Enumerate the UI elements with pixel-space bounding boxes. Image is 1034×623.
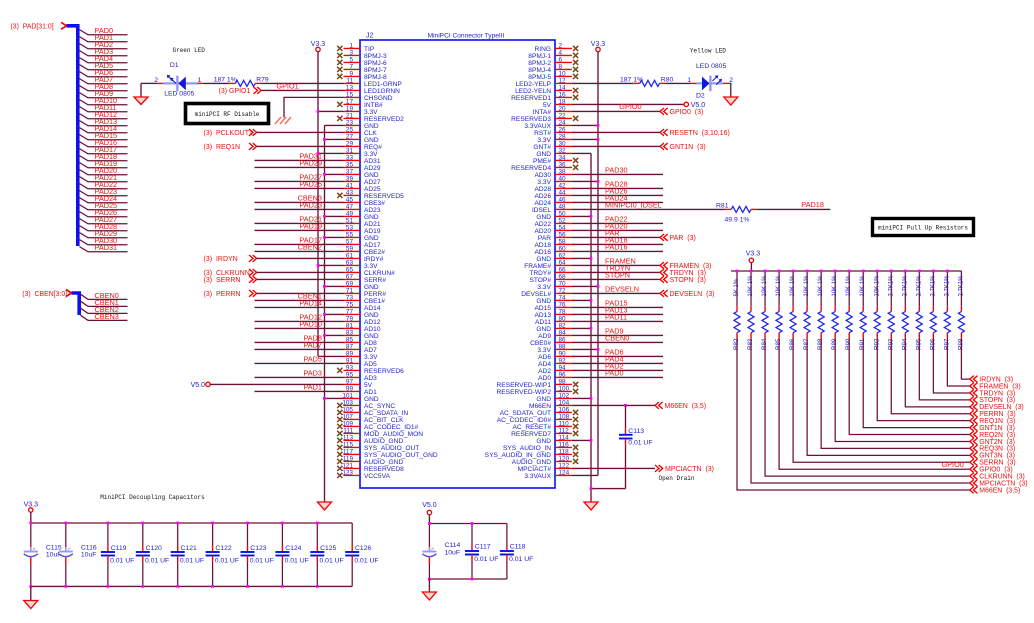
wire C113 bottom to GND [625,445,627,489]
svg-text:123: 123 [342,470,353,477]
svg-text:13: 13 [346,85,354,92]
svg-text:V5.0: V5.0 [691,102,706,109]
connector J2 pin 39 (AD27) [344,176,381,186]
svg-text:3.3V: 3.3V [537,284,551,291]
svg-text:60: 60 [559,246,567,253]
connector J2 pin 32 (GND) [536,148,572,158]
wire R82 to port M66EN [737,338,970,490]
wire net PAD8 [255,341,344,343]
connector J2 pin 24 (3.3VAUX) [524,120,572,130]
connector J2 pin 6 (8PMJ-2) [528,57,578,67]
wire net PAD6 [572,355,663,357]
wire net CBEN1 [255,299,344,301]
wire V3.3 to bus [750,263,752,271]
connector J2 pin 38 (AD30) [535,169,572,179]
resistor R84 (10K 1%) [761,271,768,350]
svg-text:61: 61 [346,253,354,260]
junction pull-up bus / R86 [792,270,795,273]
wire R86 to port SERRN [793,338,970,462]
connector J2 pin 73 (CBE1#) [344,295,386,305]
connector J2 pin 88 (3.3V) [537,344,571,354]
connector J2 pin 110 (AC_RESET#) [513,421,579,431]
svg-text:75: 75 [346,302,354,309]
connector J2 pin 68 (STOP#) [529,274,571,284]
svg-text:GND: GND [364,235,379,242]
svg-text:29: 29 [346,141,354,148]
wire R83 to port MPCIACTN [751,338,970,483]
capacitor C126 [345,523,378,586]
resistor R83 (10K 1%) [747,271,754,350]
svg-text:71: 71 [346,288,354,295]
svg-text:AD15: AD15 [535,305,552,312]
port REQ2N (pull-up) [970,431,978,438]
connector J2 pin 3 (8PMJ-3) [337,50,387,60]
svg-text:C126: C126 [355,545,371,552]
svg-text:8PMJ-1: 8PMJ-1 [528,53,551,60]
svg-text:AUDIO_GND: AUDIO_GND [364,438,403,445]
connector J2 pin 30 (GNT#) [533,141,571,151]
port MPCIACTN (pull-up) [970,480,978,487]
capacitor C118 [500,524,533,580]
ground (right rail) [584,502,598,510]
svg-text:65: 65 [346,267,354,274]
capacitor C123 [241,523,274,586]
port TRDYN (pull-up) [970,390,978,397]
svg-text:109: 109 [342,421,353,428]
capacitor C117 [465,524,498,580]
svg-text:87: 87 [346,344,354,351]
connector J2 MiniPCI Connector TypeIII body [360,40,555,488]
svg-text:2.7K1%: 2.7K1% [958,275,964,297]
connector J2 pin 5 (8PMJ-6) [337,57,387,67]
wire net PAD21 [255,222,344,224]
svg-text:112: 112 [559,428,570,435]
connector J2 pin 35 (AD29) [344,162,381,172]
wire pin 20 GPIO0 [572,110,660,112]
wire net PAD18 stub [80,156,128,161]
svg-text:R79: R79 [256,76,269,83]
svg-text:PAD19: PAD19 [299,222,322,231]
wire R97 to port FRAMEN [947,338,969,386]
svg-text:0.01 UF: 0.01 UF [145,557,169,564]
svg-text:90: 90 [559,351,567,358]
connector J2 pin 120 (AUDIO_GND) [512,456,578,466]
connector J2 pin 77 (GND) [344,309,379,319]
wire net PAD28 stub [80,226,128,231]
svg-text:CHSGND: CHSGND [364,95,393,102]
resistor R80 [640,80,660,86]
junction decoupling bus / C125 [316,522,319,525]
wire net PAD17 stub [80,149,128,154]
wire net PAD30 [572,173,663,175]
svg-text:AD21: AD21 [364,221,381,228]
connector J2 pin 102 (GND) [536,393,572,403]
svg-text:1: 1 [198,77,202,84]
junction decoupling bus / C122 [211,522,214,525]
svg-text:RST#: RST# [534,130,551,137]
wire net PAD2 [572,369,663,371]
svg-text:5V: 5V [364,382,373,389]
wire R91 to port GNT1N [863,338,970,428]
wire decoupling bus to ground [30,586,32,600]
svg-text:45: 45 [346,197,354,204]
svg-text:GPIO1: GPIO1 [276,81,298,90]
junction decoupling bus / C115 [29,522,32,525]
junction GND rail / pin 83 [323,334,326,337]
connector J2 pin 103 (AC_SYNC) [337,400,395,410]
svg-text:10: 10 [559,71,567,78]
capacitor C124 [275,523,308,586]
svg-text:GPIO0 (3): GPIO0 (3) [670,109,704,116]
connector J2 pin 65 (CLKRUN#) [344,267,396,277]
wire net PAD22 stub [80,184,128,189]
connector J2 pin 79 (AD12) [344,316,381,326]
svg-text:AD10: AD10 [364,326,381,333]
svg-text:C113: C113 [628,428,644,435]
svg-text:111: 111 [343,428,353,435]
svg-text:STOPN: STOPN [605,271,630,280]
svg-text:63: 63 [346,260,354,267]
wire 3.3V rail to pin 124 [572,474,598,476]
power V3.3 (decoupling) [29,508,33,512]
svg-text:8: 8 [559,64,563,71]
svg-text:LED2-YELN: LED2-YELN [515,88,551,95]
svg-text:91: 91 [346,358,354,365]
svg-text:RESERVED1: RESERVED1 [511,95,551,102]
svg-text:D1: D1 [170,62,179,69]
svg-text:AD8: AD8 [364,340,377,347]
connector J2 pin 78 (AD13) [535,309,572,319]
wire GND to pin 49 [325,215,344,217]
port M66EN (3,5) [655,402,663,409]
port GNT3N (pull-up) [970,452,978,459]
svg-text:AD13: AD13 [535,312,552,319]
svg-text:DEVSEL#: DEVSEL# [521,291,551,298]
connector J2 pin 27 (GND) [344,134,379,144]
svg-text:10K 1%: 10K 1% [762,275,768,297]
svg-text:LED 0805: LED 0805 [164,90,194,97]
ground (left rail) [318,502,332,510]
connector J2 pin 94 (AD2) [538,365,572,375]
connector J2 pin 17 (INTB#) [337,99,383,109]
svg-text:AD16: AD16 [535,249,552,256]
svg-text:CBEN3: CBEN3 [95,312,119,321]
svg-text:3.3V: 3.3V [364,263,378,270]
connector J2 pin 117 (SYS_AUDIO_OUT_GND) [337,449,438,459]
svg-text:PAD10: PAD10 [299,320,322,329]
svg-text:187 1%: 187 1% [620,76,643,83]
connector J2 pin 116 (SYS_AUDIO_IN) [503,442,578,452]
svg-text:C120: C120 [146,545,162,552]
svg-text:68: 68 [559,274,567,281]
svg-text:AD5: AD5 [364,361,377,368]
svg-text:CBEN2: CBEN2 [298,243,322,252]
wire net PAD4 [572,362,663,364]
svg-text:104: 104 [559,400,570,407]
connector J2 pin 61 (IRDY#) [344,253,384,263]
svg-text:88: 88 [559,344,567,351]
svg-text:120: 120 [559,456,570,463]
connector J2 pin 40 (3.3V) [537,176,571,186]
connector J2 pin 83 (GND) [344,330,379,340]
connector J2 pin 72 (DEVSEL#) [521,288,572,298]
connector J2 pin 28 (3.3V) [537,134,571,144]
wire 3.3V to pin 63 [318,264,344,266]
svg-text:GND: GND [536,438,551,445]
svg-text:AD1: AD1 [364,389,377,396]
svg-text:12: 12 [559,78,567,85]
connector J2 pin 50 (GND) [536,211,572,221]
connector J2 pin 25 (CLK) [344,127,378,137]
connector J2 pin 55 (GND) [344,232,379,242]
svg-text:LED 0805: LED 0805 [696,63,726,70]
wire net PAD25 [255,187,344,189]
junction M66EN / C113 [624,404,627,407]
wire net PAD12 [255,320,344,322]
connector J2 pin 101 (GND) [342,393,379,403]
junction pull-up bus / R93 [890,270,893,273]
junction pull-up bus / R87 [806,270,809,273]
connector J2 pin 26 (RST#) [534,127,572,137]
svg-text:59: 59 [346,246,354,253]
wire net PAD10 stub [80,100,128,105]
junction V3.3 rail / pin 70 [597,285,600,288]
wire net CBEN2 [255,250,344,252]
connector J2 pin 90 (AD6) [538,351,572,361]
connector J2 pin 51 (AD21) [344,218,381,228]
svg-text:MiniPCI Decoupling Capacitors: MiniPCI Decoupling Capacitors [100,494,205,501]
junction pull-up bus / R83 [750,270,753,273]
svg-text:RESERVED3: RESERVED3 [511,116,551,123]
connector J2 pin 20 (INTA#) [533,106,572,116]
svg-text:10K 1%: 10K 1% [860,275,866,297]
svg-text:121: 121 [342,463,353,470]
svg-text:10K 1%: 10K 1% [818,275,824,297]
LED D2 [691,75,730,91]
wire net PAD29 stub [80,233,128,238]
svg-text:PME#: PME# [533,158,551,165]
svg-text:Yellow LED: Yellow LED [690,47,726,54]
svg-text:2: 2 [154,77,158,84]
wire net PAD14 stub [80,128,128,133]
svg-text:10K 1%: 10K 1% [846,275,852,297]
svg-text:AC_BIT_CLK: AC_BIT_CLK [364,417,404,424]
port TRDYN [660,269,668,276]
junction V5.0 bus / C117 [471,522,474,525]
svg-text:2.7K1%: 2.7K1% [888,275,894,297]
svg-text:R80: R80 [661,76,674,83]
svg-text:RESERVED-WIP1: RESERVED-WIP1 [497,382,552,389]
connector J2 pin 57 (AD17) [344,239,381,249]
wire CLKRUNN to pin [257,271,344,273]
wire R94 to port DEVSELN [905,338,970,407]
wire net PAD13 [572,313,663,315]
svg-text:83: 83 [346,330,354,337]
svg-text:79: 79 [346,316,354,323]
wire net PAD19 [255,229,344,231]
wire net PAD15 [572,306,663,308]
junction GND rail / pin 49 [323,215,326,218]
svg-text:PAD25: PAD25 [299,180,322,189]
svg-text:PAD30: PAD30 [605,166,628,175]
connector J2 pin 99 (AD1) [344,386,378,396]
port REQ3N (pull-up) [970,445,978,452]
wire 3.3V to pin 24 [572,124,598,126]
connector J2 pin 91 (AD5) [344,358,378,368]
svg-text:SYS_AUDIO_OUT_GND: SYS_AUDIO_OUT_GND [364,452,438,459]
capacitor C121 [171,523,204,586]
svg-text:CLK: CLK [364,130,377,137]
connector J2 pin 41 (AD25) [344,183,381,193]
svg-text:4: 4 [559,50,563,57]
svg-text:21: 21 [346,113,354,120]
connector J2 pin 76 (AD15) [535,302,572,312]
svg-text:AD20: AD20 [535,228,552,235]
svg-text:10K 1%: 10K 1% [804,275,810,297]
junction GND rail / pin 55 [323,236,326,239]
svg-text:AD24: AD24 [535,200,552,207]
svg-text:72: 72 [559,288,567,295]
svg-text:8PMJ-7: 8PMJ-7 [364,67,387,74]
svg-text:44: 44 [559,190,567,197]
wire net PAD1 [255,390,344,392]
svg-text:C122: C122 [215,545,231,552]
svg-text:10uF: 10uF [81,552,97,559]
svg-text:RESETN (3,10,16): RESETN (3,10,16) [670,130,730,137]
resistor R94 (2.7K1%) [901,271,908,350]
resistor R93 (2.7K1%) [887,271,894,350]
wire net PAD19 stub [80,163,128,168]
power V3.3 (right rail) [596,47,600,51]
port GNT1N [660,143,668,150]
wire GND to pin 74 [572,299,591,301]
port GPIO0 (3) [660,108,668,115]
wire net PAD11 stub [80,107,128,112]
junction GND rail bottom [590,487,593,490]
wire net PAD2 stub [80,44,128,49]
svg-text:AD11: AD11 [535,319,551,326]
svg-text:AD18: AD18 [535,242,552,249]
connector J2 pin 2 (RING) [535,43,579,53]
svg-text:38: 38 [559,169,567,176]
resistor R98 (2.7K1%) [957,271,964,350]
wire net PAD23 stub [80,191,128,196]
port GNT2N (pull-up) [970,438,978,445]
svg-text:GND: GND [536,326,551,333]
svg-text:84: 84 [559,330,567,337]
svg-text:78: 78 [559,309,567,316]
svg-text:108: 108 [559,414,570,421]
svg-text:(3) CLKRUNN: (3) CLKRUNN [204,270,250,277]
wire V5.0 group to ground [428,579,430,592]
junction V5.0 bus / C114 [428,522,431,525]
junction GND rail / pin 114 [590,439,593,442]
svg-text:55: 55 [346,232,354,239]
svg-text:RESERVED6: RESERVED6 [364,368,404,375]
svg-text:10K 1%: 10K 1% [832,275,838,297]
connector J2 pin 52 (AD22) [535,218,572,228]
svg-text:AD17: AD17 [364,242,381,249]
wire net CBEN3 [255,201,344,203]
svg-text:46: 46 [559,197,567,204]
svg-text:CBEN0: CBEN0 [605,334,629,343]
svg-text:PAR: PAR [605,229,619,238]
svg-text:(3) GPIO1: (3) GPIO1 [219,88,251,95]
svg-text:64: 64 [559,260,567,267]
wire net PAD20 stub [80,170,128,175]
wire RESETN [572,131,660,133]
wire net PAD3 stub [80,51,128,56]
junction pull-up bus / R90 [848,270,851,273]
svg-text:J2: J2 [366,33,374,40]
svg-text:IRDY#: IRDY# [364,256,384,263]
wire decoupling bottom bus [31,585,352,587]
svg-text:80: 80 [559,316,567,323]
svg-text:AD2: AD2 [538,368,551,375]
svg-text:5V: 5V [543,102,552,109]
wire net PAD27 [255,180,344,182]
svg-text:54: 54 [559,225,567,232]
wire GND to pin 27 [325,138,344,140]
svg-text:106: 106 [559,407,570,414]
svg-text:AD9: AD9 [538,333,551,340]
connector J2 pin 18 (5V) [543,99,572,109]
wire net PAD27 stub [80,219,128,224]
svg-text:AC_SYNC: AC_SYNC [364,403,395,410]
svg-text:114: 114 [559,435,570,442]
capacitor C125 [310,523,343,586]
svg-text:C114: C114 [445,542,461,549]
annotation box: miniPCI Pull Up Resistors [873,219,974,236]
wire net PAD22 [572,222,663,224]
svg-text:CLKRUN#: CLKRUN# [364,270,395,277]
svg-text:11: 11 [346,78,353,85]
svg-text:V5.0: V5.0 [191,382,206,389]
connector J2 pin 70 (3.3V) [537,281,571,291]
junction GND rail / pin 27 [323,138,326,141]
connector J2 pin 104 (M66EN) [529,400,572,410]
wire net CBEN2 stub [81,308,128,313]
wire GPIO1 to pin 13 [262,89,344,91]
port SERRN (pull-up) [970,459,978,466]
svg-text:7: 7 [349,64,353,71]
junction GND rail / pin 77 [323,313,326,316]
wire pin 15 CHSGND [284,97,344,117]
junction pull-up bus / R85 [778,270,781,273]
junction pull-up bus / R96 [932,270,935,273]
wire net CBEN3 stub [81,315,128,320]
svg-text:3.3VAUX: 3.3VAUX [524,123,551,130]
wire C113 top [625,405,627,428]
svg-text:AC_SDATA_IN: AC_SDATA_IN [364,410,408,417]
svg-text:0.01 UF: 0.01 UF [628,439,652,446]
svg-text:CBE0#: CBE0# [530,340,551,347]
junction pull-up bus / R82 [736,270,739,273]
wire R93 to port PERRN [891,338,970,414]
wire GND to pin 101 [325,397,344,399]
wire 3.3V to pin 19 [318,110,344,112]
svg-text:SYS_AUDIO_IN: SYS_AUDIO_IN [503,445,551,452]
wire MINIPCI0_IDSEL [572,208,726,210]
svg-text:0.01 UF: 0.01 UF [110,557,134,564]
junction V3.3 rail / pin 63 [317,264,320,267]
svg-text:58: 58 [559,239,567,246]
junction decoupling bus / C124 [281,522,284,525]
wire net PAD11 [572,320,663,322]
connector J2 pin 85 (AD8) [344,337,378,347]
wire R84 to port CLKRUNN [765,338,970,476]
svg-text:INTA#: INTA# [533,109,552,116]
